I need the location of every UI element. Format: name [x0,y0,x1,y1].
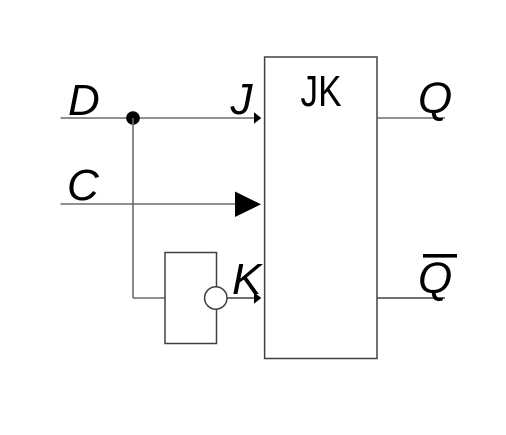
node junction dot [126,111,140,125]
arrowhead J input [254,112,261,123]
svg-text:Q: Q [418,74,452,123]
svg-text:Q: Q [418,254,452,303]
svg-text:C: C [67,161,100,210]
wire C clock input [61,203,237,205]
clock arrowhead (large triangle) [235,192,261,218]
wire Qbar output [377,297,445,299]
svg-text:JK: JK [301,67,342,116]
inverter U1 box [165,253,217,344]
flip-flop U2 box [265,57,377,359]
wire horizontal to inverter input [133,297,165,299]
arrowhead K input [254,292,261,303]
svg-text:J: J [230,75,254,124]
wire vertical from junction [132,118,134,298]
svg-text:D: D [68,76,100,125]
overbar of Qbar [423,254,457,258]
wire Q output [377,117,445,119]
inverter bubble [205,287,227,309]
wire D input to J [61,117,256,119]
svg-text:K: K [232,255,263,304]
wire inverter to K [227,297,255,299]
